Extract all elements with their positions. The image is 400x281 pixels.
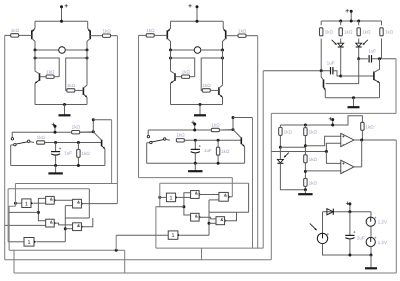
node junction left y58 block1 bbox=[34, 57, 37, 60]
wire emitter rail of block1 bbox=[35, 104, 87, 106]
svg-text:1kΩ: 1kΩ bbox=[325, 30, 334, 35]
wire signal feed wire bbox=[271, 151, 326, 153]
power +V terminal battery block bbox=[346, 200, 352, 211]
wire base lead Q3 block2 bbox=[175, 76, 182, 78]
label C battery 1uF bbox=[357, 236, 365, 241]
wire right collector column block2 bbox=[222, 50, 224, 85]
inverter G6 of logic1 bbox=[24, 238, 36, 247]
wire node C drop to Q1 base bbox=[326, 59, 359, 84]
resistor R3 opamp 1k bbox=[304, 155, 318, 163]
wire Rv top stem timerM bbox=[217, 140, 219, 147]
wire cross wire left block2 bbox=[171, 58, 195, 77]
resistor R4 block3 1k bbox=[380, 28, 394, 36]
wire lamp wire right block2 bbox=[201, 49, 223, 51]
power +V terminal of timerM bbox=[191, 119, 196, 130]
svg-text:+: + bbox=[191, 119, 195, 126]
svg-text:1kΩ: 1kΩ bbox=[81, 151, 90, 156]
resistor R1 of block1 1k bbox=[11, 28, 20, 37]
wire switch lower feed timerL bbox=[11, 144, 14, 146]
resistor R1 of block2 1k bbox=[146, 28, 155, 37]
svg-text:-: - bbox=[342, 169, 344, 175]
wire R3-right link block1 bbox=[54, 76, 59, 78]
wire chainB stem3 bbox=[304, 163, 306, 179]
light arrows D2 block3 bbox=[363, 40, 368, 45]
wire op1 output drop bbox=[395, 140, 397, 273]
resistor Rb of timerM 1k bbox=[176, 133, 185, 142]
svg-text:1.2V: 1.2V bbox=[378, 220, 388, 225]
label C 1uF timerL bbox=[64, 150, 72, 155]
label B2 1.2V bbox=[378, 240, 388, 245]
svg-text:&: & bbox=[195, 213, 198, 218]
resistor R1 block3 1k bbox=[320, 28, 334, 36]
wire emitter rail block3 bbox=[325, 97, 379, 99]
svg-text:1kΩ: 1kΩ bbox=[67, 83, 76, 88]
node +V junction timerL bbox=[54, 131, 57, 134]
wire top rail of timerM bbox=[148, 129, 233, 131]
node Rv junction timerL bbox=[77, 141, 80, 144]
wire op2 output wire bbox=[354, 166, 362, 168]
ground symbol of timerM bbox=[188, 163, 202, 171]
wire battery branch down bbox=[370, 212, 372, 218]
inverter G6 of logic2 bbox=[168, 231, 180, 239]
svg-text:&: & bbox=[195, 191, 198, 196]
svg-text:1kΩ: 1kΩ bbox=[103, 28, 112, 33]
transistor Q1 block3 (mirrored NPN) bbox=[321, 71, 325, 98]
wire base lead Q3 block1 bbox=[40, 76, 47, 78]
svg-text:1kΩ: 1kΩ bbox=[211, 122, 220, 127]
svg-text:&: & bbox=[224, 193, 227, 198]
svg-text:+: + bbox=[199, 144, 202, 149]
resistor Ra of timerL 1k bbox=[72, 125, 81, 134]
node chainB node2 bbox=[304, 170, 307, 173]
wire G5 lower input logic1 bbox=[65, 228, 72, 230]
wire feedback bus y183 logic2 bbox=[160, 182, 249, 184]
node junction x184 logic2 bbox=[182, 205, 185, 208]
wire node2 to op2- bbox=[305, 170, 340, 172]
switch SW of timerM bbox=[147, 130, 170, 144]
resistor R4 opamp 1k bbox=[304, 178, 318, 186]
wire G4 lower input logic1 bbox=[65, 205, 72, 207]
node ground junction block2 bbox=[199, 103, 202, 106]
node node D block3 bbox=[378, 57, 381, 60]
node +V junction timerM bbox=[193, 129, 196, 132]
power +V terminal of timerL bbox=[51, 122, 56, 133]
wire G4 output logic1 bbox=[81, 203, 117, 205]
svg-text:1kΩ: 1kΩ bbox=[46, 69, 55, 74]
wire G3 output logic2 bbox=[199, 217, 216, 219]
wire wire y225 logic1 bbox=[5, 224, 46, 226]
wire signal to op2+ bbox=[326, 152, 340, 164]
node node collector-left block1 bbox=[34, 49, 37, 52]
wire logic2 left column bbox=[159, 183, 161, 207]
svg-text:1uF: 1uF bbox=[327, 61, 335, 66]
transistor Q2 of block2 (right PNP) bbox=[223, 21, 226, 50]
wire wire y206 logic2 bbox=[156, 206, 184, 208]
transistor Q of timerL bbox=[93, 132, 105, 166]
svg-text:1kΩ: 1kΩ bbox=[11, 28, 20, 33]
wire chainA mid stem bbox=[279, 136, 281, 148]
wire G1 input logic1 bbox=[16, 202, 22, 204]
wire logic2 loop bottom bbox=[156, 247, 263, 249]
wire G5 output logic1 bbox=[81, 218, 92, 227]
wire logic2 left column drop bbox=[155, 207, 157, 248]
capacitor C2 block3 1uF bbox=[369, 55, 371, 62]
svg-text:+: + bbox=[328, 116, 332, 123]
resistor R1 opamp 1k bbox=[279, 127, 293, 135]
node supply junction of block1 bbox=[60, 20, 63, 23]
wire feedback bus y183 bbox=[15, 183, 117, 185]
wire crossover v248 logic2 bbox=[248, 183, 250, 212]
AND gate G5 of logic1 bbox=[73, 223, 84, 231]
svg-text:1kΩ: 1kΩ bbox=[202, 83, 211, 88]
op-amp U1 bbox=[341, 133, 354, 148]
inverter G1 of logic2 bbox=[166, 193, 177, 202]
node junction x38 logic1 bbox=[37, 211, 40, 214]
node input node logic1 bbox=[14, 202, 17, 205]
wire riser x116 bbox=[115, 235, 117, 250]
node rail junction c block3 bbox=[357, 20, 360, 23]
svg-text:1.2V: 1.2V bbox=[378, 240, 388, 245]
node chainB node1 bbox=[304, 144, 307, 147]
resistor R3 of block1 1k bbox=[46, 69, 55, 78]
wire base lead Q1 block1 bbox=[19, 34, 32, 36]
wire Ra right link timerL bbox=[80, 131, 94, 133]
svg-text:1: 1 bbox=[25, 201, 28, 207]
wire top supply rail of block1 bbox=[35, 20, 88, 22]
label C1 1uF bbox=[327, 61, 335, 66]
wire supply rail block3 bbox=[321, 20, 381, 22]
wire crossnet drop x8 bbox=[7, 189, 9, 242]
wire cell to bottom rail bbox=[370, 247, 372, 255]
node node A block3 bbox=[320, 69, 323, 72]
wire R5 bottom stem bbox=[361, 130, 363, 140]
node cap bottom junction timerL bbox=[54, 164, 57, 167]
wire G6 output logic1 bbox=[36, 241, 65, 243]
capacitor C 1uF of timerM bbox=[191, 140, 202, 163]
power +V terminal of block2 bbox=[188, 3, 198, 21]
wire R4 bottom stem block3 bbox=[381, 39, 383, 59]
resistor R3 of block2 1k bbox=[182, 69, 191, 78]
node signal node bbox=[325, 150, 328, 153]
transistor Q3 of block1 (lower-left NPN) bbox=[35, 71, 40, 105]
wire G4 lower input logic2 bbox=[209, 199, 219, 201]
wire block3 nodeA drop bbox=[262, 71, 264, 248]
wire left drop of timerL bbox=[10, 145, 12, 166]
resistor R2 opamp 1k bbox=[304, 128, 318, 136]
wire Rv top stem timerL bbox=[77, 143, 79, 150]
transistor Q of timerM bbox=[233, 130, 245, 164]
wire column x209 logic2 bbox=[208, 200, 210, 235]
wire bottom rail of timerM bbox=[147, 162, 245, 164]
wire G5 lower input logic2 bbox=[209, 222, 216, 224]
wire chainB stem1 bbox=[304, 125, 306, 127]
svg-text:&: & bbox=[50, 219, 53, 224]
wire solar branch down bbox=[322, 212, 324, 234]
wire C1 to base-node link bbox=[333, 71, 341, 76]
wire timerL output drop bbox=[111, 120, 113, 184]
AND gate G4 of logic2 bbox=[219, 192, 231, 201]
node rail junction b block3 bbox=[350, 20, 353, 23]
node cap bottom junction timerM bbox=[194, 162, 197, 165]
node node collector-left block2 bbox=[169, 49, 172, 52]
wire chainA-chainB link bbox=[280, 146, 305, 148]
svg-text:1uF: 1uF bbox=[368, 48, 376, 53]
wire crossover v89 logic1 bbox=[88, 189, 90, 218]
node battery ground junction bbox=[370, 254, 373, 257]
svg-text:&: & bbox=[77, 199, 80, 204]
node chainA node bbox=[279, 146, 282, 149]
svg-text:+: + bbox=[327, 231, 330, 236]
wire wire y113 bbox=[271, 112, 396, 114]
node node collector-right block1 bbox=[86, 49, 89, 52]
wire base lead Q4 block2 bbox=[210, 89, 219, 91]
wire G3 output jog logic1 bbox=[54, 223, 72, 225]
node output junction opamp bbox=[360, 139, 363, 142]
wire op1- to signal node bbox=[326, 143, 340, 151]
capacitor C 1uF of timerL bbox=[51, 143, 62, 166]
wire block2 left R drop bbox=[138, 35, 140, 177]
AND gate G2 of logic1 bbox=[46, 196, 57, 204]
wire LED1 top stem block3 bbox=[340, 39, 342, 44]
ground symbol of block1 bbox=[59, 105, 71, 116]
svg-text:+: + bbox=[346, 200, 350, 207]
node Rv bottom junction timerM bbox=[217, 162, 220, 165]
indicator lamp of block2 bbox=[194, 47, 201, 54]
wire G6 output logic2 bbox=[180, 234, 209, 236]
wire wired-or link bbox=[361, 140, 363, 167]
resistor Rv of timerM 1k bbox=[216, 147, 230, 155]
resistor R2 of block1 1k bbox=[103, 28, 112, 37]
wire bottom distribution wire bbox=[5, 259, 272, 261]
wire G1 output logic1 bbox=[33, 202, 46, 204]
wire base lead Q2 block1 bbox=[90, 35, 102, 37]
wire base row of timerM bbox=[184, 139, 241, 141]
resistor Ra of timerM 1k bbox=[211, 122, 220, 131]
wire opamp supply rail bbox=[280, 116, 362, 125]
svg-text:1kΩ: 1kΩ bbox=[309, 157, 318, 162]
wire collector riser timerL bbox=[92, 120, 94, 132]
node supply junction of block2 bbox=[196, 20, 199, 23]
wire R2 top stem block3 bbox=[340, 21, 342, 25]
svg-text:1kΩ: 1kΩ bbox=[365, 124, 374, 129]
wire output link timerM bbox=[233, 117, 253, 119]
svg-text:+: + bbox=[353, 230, 356, 235]
node junction right y58 block1 bbox=[86, 57, 89, 60]
node cap junction timerL bbox=[54, 141, 57, 144]
wire cross wire right block1 bbox=[66, 58, 87, 90]
wire lamp wire left block2 bbox=[171, 49, 195, 51]
node cap bottom junction battery bbox=[348, 254, 351, 257]
AND gate G5 of logic2 bbox=[216, 217, 227, 225]
wire emitter rail of block2 bbox=[171, 104, 223, 106]
svg-text:+: + bbox=[342, 161, 345, 166]
wire lamp wire left block1 bbox=[35, 49, 59, 51]
svg-text:+: + bbox=[345, 8, 349, 15]
solar cell bbox=[317, 231, 329, 243]
ground symbol of timerL bbox=[48, 166, 62, 174]
wire G2 output logic2 bbox=[199, 194, 219, 196]
svg-text:1kΩ: 1kΩ bbox=[362, 30, 371, 35]
light arrows D1 block3 bbox=[332, 40, 337, 45]
photodiode D opamp bbox=[277, 159, 283, 163]
AND gate G4 of logic1 bbox=[73, 199, 84, 208]
ground symbol block3 bbox=[348, 98, 360, 108]
node ground junction block1 bbox=[63, 103, 66, 106]
resistor R2 of block2 1k bbox=[238, 28, 247, 37]
resistor R4 of block2 1k bbox=[202, 83, 211, 92]
resistor R4 of block1 1k bbox=[67, 83, 76, 92]
wire R4 top stem block3 bbox=[381, 21, 383, 25]
photodiode D2 block3 bbox=[356, 43, 362, 47]
transistor Q3 of block2 (lower-left NPN) bbox=[171, 71, 176, 105]
wire R2 right lead block1 bbox=[111, 35, 118, 37]
svg-text:&: & bbox=[77, 223, 80, 228]
wire Q2 base wire block3 bbox=[341, 75, 374, 77]
transistor Q2 block3 (NPN) bbox=[374, 59, 380, 98]
diode D1 battery block bbox=[327, 209, 333, 215]
svg-text:1kΩ: 1kΩ bbox=[146, 28, 155, 33]
wire border left stub bbox=[13, 250, 15, 273]
light arrow solar bbox=[310, 223, 317, 230]
node chainB top junction bbox=[304, 124, 307, 127]
transistor Q4 of block2 (lower-right NPN) bbox=[219, 85, 223, 105]
wire bottom rail of timerL bbox=[11, 165, 105, 167]
wire chainA top stem bbox=[279, 125, 281, 127]
svg-text:+: + bbox=[64, 3, 68, 10]
indicator lamp of block1 bbox=[59, 47, 66, 54]
photodiode D1 block3 bbox=[338, 43, 344, 47]
op-amp U2 bbox=[341, 160, 354, 175]
wire Ra right link timerM bbox=[219, 129, 233, 131]
node chainB bottom junction bbox=[304, 188, 307, 191]
resistor Rv of timerL 1k bbox=[77, 149, 91, 157]
wire crossnet y188 bbox=[8, 188, 89, 190]
wire cross wire right block2 bbox=[201, 58, 222, 90]
wire G6 input logic2 bbox=[116, 234, 168, 236]
resistor R5 opamp 1k bbox=[361, 122, 375, 130]
wire R2 right lead block2 bbox=[246, 35, 258, 37]
wire block2 R2 drop bbox=[257, 36, 259, 248]
wire between cells bbox=[370, 226, 372, 237]
wire LED2 top stem block3 bbox=[358, 39, 360, 44]
ground symbol opamp bbox=[298, 190, 312, 195]
wire block1 R2 drop bbox=[116, 36, 118, 204]
svg-text:1: 1 bbox=[172, 233, 175, 239]
resistor R3 block3 1k bbox=[357, 28, 371, 36]
wire R3 top stem block3 bbox=[358, 21, 360, 25]
svg-text:1kΩ: 1kΩ bbox=[284, 129, 293, 134]
AND gate G3 of logic1 bbox=[46, 219, 57, 227]
wire wire y177 bbox=[139, 177, 233, 179]
wire R3-right link block2 bbox=[190, 76, 195, 78]
node junction right y58 block2 bbox=[221, 57, 224, 60]
wire battery top wire bbox=[323, 211, 372, 213]
svg-text:1kΩ: 1kΩ bbox=[182, 69, 191, 74]
node junction left y58 block2 bbox=[169, 57, 172, 60]
wire left rail from block1 R1 bbox=[4, 35, 6, 259]
svg-text:1kΩ: 1kΩ bbox=[385, 30, 394, 35]
wire G2 output logic1 bbox=[54, 199, 72, 201]
svg-text:1kΩ: 1kΩ bbox=[221, 149, 230, 154]
svg-text:1kΩ: 1kΩ bbox=[309, 130, 318, 135]
power +V terminal op-amp block bbox=[328, 116, 334, 125]
svg-text:-: - bbox=[342, 142, 344, 148]
node output node timerL bbox=[92, 118, 95, 121]
node junction y250 bbox=[115, 249, 118, 252]
wire node C to cap2 bbox=[359, 58, 368, 60]
wire logic1 left column bbox=[14, 184, 16, 207]
light arrows D opamp bbox=[284, 153, 289, 158]
wire base row of timerL bbox=[45, 142, 102, 144]
wire Rv bottom stem timerL bbox=[77, 157, 79, 166]
wire LED top stem opamp bbox=[279, 147, 281, 159]
wire chainB bottom stem bbox=[304, 186, 306, 189]
svg-text:1kΩ: 1kΩ bbox=[176, 133, 185, 138]
svg-text:1: 1 bbox=[28, 240, 31, 246]
wire bottom border wire bbox=[14, 272, 396, 274]
node junction x65 logic1 bbox=[64, 227, 67, 230]
node ground junction block3 bbox=[352, 96, 355, 99]
node collector node timerM bbox=[232, 128, 235, 131]
capacitor C1 block3 1uF bbox=[331, 67, 333, 74]
node collector node timerL bbox=[92, 130, 95, 133]
wire left collector column block1 bbox=[34, 50, 36, 71]
wire branch column x38 logic1 bbox=[38, 198, 45, 220]
wire cross wire left block1 bbox=[35, 58, 59, 77]
wire crossover h212 logic2 bbox=[209, 211, 249, 213]
ground symbol of block2 bbox=[194, 105, 206, 116]
svg-text:1uF: 1uF bbox=[204, 148, 212, 153]
inverter G1 of logic1 bbox=[22, 199, 33, 208]
wire crossover h218 logic1 bbox=[65, 217, 89, 219]
wire output link timerL bbox=[93, 119, 111, 121]
node junction x209 logic2 bbox=[208, 222, 211, 225]
wire lamp wire right block1 bbox=[65, 49, 87, 51]
wire left collector column block2 bbox=[170, 50, 172, 71]
wire LED bottom stem opamp bbox=[280, 163, 305, 189]
wire node-A wire block3 bbox=[263, 70, 330, 72]
node rail junction a block3 bbox=[339, 20, 342, 23]
wire base lead Q1 block2 bbox=[154, 34, 167, 36]
svg-text:+: + bbox=[51, 122, 55, 129]
wire column x65 logic1 bbox=[64, 206, 66, 242]
svg-text:1kΩ: 1kΩ bbox=[37, 135, 46, 140]
wire cap2 to node D bbox=[372, 58, 396, 60]
wire left drop of timerM bbox=[146, 143, 148, 164]
wire LED2 bottom stem block3 bbox=[358, 47, 360, 59]
transistor Q2 of block1 (right PNP) bbox=[87, 21, 90, 50]
svg-text:1uF: 1uF bbox=[64, 150, 72, 155]
wire op1 output wire bbox=[354, 139, 396, 141]
node node B block3 bbox=[339, 75, 342, 78]
svg-text:1kΩ: 1kΩ bbox=[238, 28, 247, 33]
wire Rv bottom stem timerM bbox=[217, 155, 219, 164]
transistor Q1 of block2 (left PNP) bbox=[167, 21, 170, 50]
wire R1 left lead block2 bbox=[139, 34, 147, 36]
svg-text:1kΩ: 1kΩ bbox=[309, 180, 318, 185]
wire collector riser timerM bbox=[232, 118, 234, 130]
resistor R2 block3 1k bbox=[339, 28, 353, 36]
wire base lead Q4 block1 bbox=[75, 89, 84, 91]
label B1 1.2V bbox=[378, 220, 388, 225]
wire G5 output logic2 bbox=[225, 212, 237, 220]
svg-text:+: + bbox=[342, 134, 345, 139]
svg-text:&: & bbox=[220, 217, 223, 222]
wire logic1 left column jog bbox=[9, 206, 15, 250]
node node C block3 bbox=[357, 57, 360, 60]
wire solar to bottom rail bbox=[323, 244, 372, 255]
wire switch lower feed timerM bbox=[147, 142, 150, 144]
